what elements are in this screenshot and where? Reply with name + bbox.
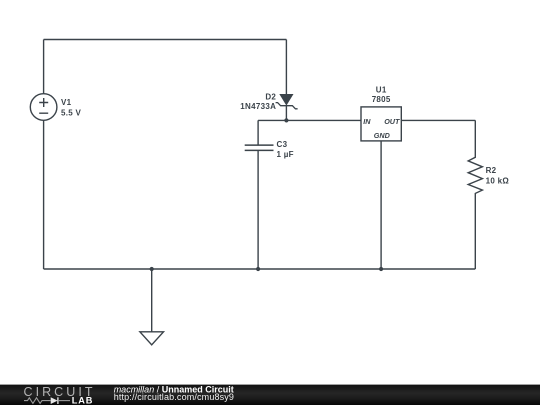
resistor R2	[468, 120, 482, 269]
diode D2 triangle	[279, 94, 293, 106]
wire diode anode drop	[285, 40, 287, 95]
footer bar	[0, 385, 540, 405]
svg-text:1 µF: 1 µF	[277, 150, 294, 159]
svg-text:1N4733A: 1N4733A	[240, 102, 276, 111]
wire mid rail node A to U1 IN	[258, 119, 361, 121]
logo resistor zigzag	[24, 398, 51, 404]
wire C3 bottom lead	[257, 150, 259, 269]
svg-text:C3: C3	[277, 140, 288, 149]
junction dot ground	[150, 267, 154, 271]
svg-text:LAB: LAB	[72, 395, 94, 405]
svg-text:IN: IN	[363, 117, 371, 126]
wire ground stub	[151, 269, 153, 332]
svg-text:http://circuitlab.com/cmu8sy9: http://circuitlab.com/cmu8sy9	[114, 392, 234, 402]
junction dot U1 GND	[379, 267, 383, 271]
svg-text:5.5 V: 5.5 V	[61, 108, 82, 117]
wire V1 minus terminal to bottom rail	[43, 120, 45, 269]
junction dot C3 bottom	[256, 267, 260, 271]
voltage source V1	[30, 94, 57, 121]
wire U1 OUT to R2	[401, 119, 475, 121]
svg-text:10 kΩ: 10 kΩ	[486, 177, 510, 186]
wire C3 top lead	[257, 120, 259, 145]
svg-text:OUT: OUT	[384, 117, 400, 126]
node A junction dot	[284, 118, 288, 122]
wire top rail	[44, 39, 287, 41]
op-amp U1 box	[361, 107, 401, 141]
wire U1 GND to bottom rail	[380, 141, 382, 269]
capacitor C3	[245, 145, 274, 150]
wire V1 plus terminal to top rail	[43, 40, 45, 94]
svg-text:7805: 7805	[372, 95, 391, 104]
svg-text:GND: GND	[374, 131, 390, 140]
wire bottom rail	[44, 268, 476, 270]
wire diode cathode to node A	[285, 106, 287, 121]
svg-text:V1: V1	[61, 98, 72, 107]
svg-text:D2: D2	[265, 92, 276, 101]
diode D2 zener bar	[276, 103, 298, 109]
logo diode	[51, 397, 70, 404]
ground	[140, 332, 164, 345]
svg-text:R2: R2	[486, 166, 497, 175]
svg-text:U1: U1	[376, 85, 387, 94]
